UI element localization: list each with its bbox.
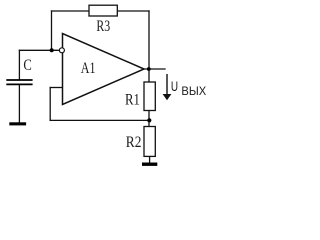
resistor R2 [144,127,155,157]
svg-text:R3: R3 [96,18,110,35]
resistor R3 [89,5,117,16]
resistor R1 [144,82,155,111]
ground (R2) [142,163,157,166]
wire: right feedback vertical from top wire down to output node [148,11,150,69]
wire: feedback loop bottom horizontal to R1/R2 junction [50,119,149,121]
wire: op-amp output to output terminal [144,68,165,70]
svg-text:ВЫХ: ВЫХ [181,84,206,98]
svg-text:R2: R2 [126,134,142,151]
wire: output node down to R1 [148,69,150,82]
wire: capacitor top lead [18,50,20,79]
node: output junction dot [147,67,151,71]
svg-text:A1: A1 [81,60,96,77]
svg-text:R1: R1 [125,92,140,109]
op-amp A1 triangle [63,34,145,105]
wire: inverting input horizontal from capacitor to op-amp bubble [19,49,59,51]
wire: feedback loop left vertical [49,88,51,121]
wire: top feedback horizontal from left vertical to R3 and on to right vertical [52,10,150,12]
svg-text:U: U [171,79,178,94]
output arrow [163,74,172,100]
wire: R1 bottom to junction [148,111,150,127]
ground (capacitor) [9,122,26,125]
wire: left feedback vertical down to inverting input node [51,11,53,50]
svg-text:C: C [23,57,31,74]
op-amp inverting input bubble [59,48,64,53]
node: R1/R2 junction dot [147,118,151,122]
node: inverting input junction dot [50,48,54,52]
wire: R2 bottom to ground [149,156,151,162]
wire: non-inverting input horizontal into op-amp [50,87,62,89]
capacitor C plates [6,80,32,84]
wire: capacitor bottom lead down to ground [18,85,20,122]
